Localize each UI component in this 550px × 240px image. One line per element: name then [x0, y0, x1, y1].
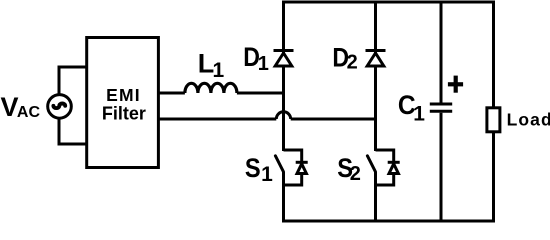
wire EMI upper output to inductor — [158, 92, 185, 95]
svg-text:1: 1 — [258, 53, 269, 75]
body diode of S1 — [296, 162, 308, 173]
diode D1 — [274, 51, 294, 67]
wire S2 diode branch top — [376, 150, 394, 164]
AC source VAC — [48, 95, 72, 119]
label EMI Filter — [102, 85, 146, 124]
svg-text:1: 1 — [413, 103, 425, 126]
wire S2 to bottom rail — [374, 172, 377, 222]
diode D2 — [366, 51, 386, 67]
switch S1 blade — [275, 156, 283, 172]
wire S1 diode branch bottom — [284, 174, 302, 186]
wire top rail to diode D1 — [282, 2, 285, 53]
label C1 — [398, 90, 425, 126]
capacitor C1 — [430, 104, 452, 111]
wire D1 to switch S1 — [282, 66, 285, 151]
wire crossover to node B — [291, 118, 376, 121]
label S2 — [337, 153, 361, 185]
wire source top to EMI filter — [59, 67, 87, 96]
EMI filter box — [87, 38, 159, 168]
load resistor box — [487, 108, 500, 132]
svg-text:V: V — [1, 92, 19, 122]
svg-text:S: S — [245, 153, 261, 183]
svg-text:Load: Load — [507, 109, 550, 129]
label D2 — [332, 43, 357, 74]
inductor L1 — [185, 83, 237, 93]
wire capacitor C1 to bottom rail — [440, 113, 443, 221]
svg-text:1: 1 — [261, 163, 273, 186]
svg-text:1: 1 — [213, 59, 225, 82]
switch S2 blade — [367, 156, 375, 172]
wire S2 diode branch bottom — [376, 174, 394, 186]
label L1 — [198, 49, 225, 83]
svg-text:AC: AC — [17, 104, 41, 121]
wire inductor to node A — [237, 92, 285, 95]
svg-text:2: 2 — [350, 163, 361, 185]
wire top rail to load — [492, 2, 495, 108]
wire S1 to bottom rail — [282, 172, 285, 222]
wire load to bottom rail — [492, 132, 495, 221]
label D1 — [243, 42, 269, 75]
wire D2 to switch S2 — [374, 66, 377, 151]
svg-text:Filter: Filter — [102, 104, 146, 124]
label VAC — [1, 92, 41, 122]
svg-text:2: 2 — [347, 51, 358, 73]
bottom rail — [284, 220, 494, 223]
body diode of S2 — [388, 162, 400, 173]
svg-text:EMI: EMI — [106, 85, 141, 105]
label S1 — [245, 153, 273, 186]
top rail — [284, 1, 494, 4]
label Load — [507, 109, 550, 129]
wire crossover hop — [276, 112, 290, 119]
wire source bottom to EMI filter — [59, 117, 87, 144]
wire top rail to diode D2 — [374, 2, 377, 53]
polarity plus sign — [448, 76, 463, 93]
wire top rail to capacitor C1 — [440, 2, 443, 103]
wire EMI lower output to crossover — [158, 118, 276, 121]
wire S1 diode branch top — [284, 150, 302, 164]
